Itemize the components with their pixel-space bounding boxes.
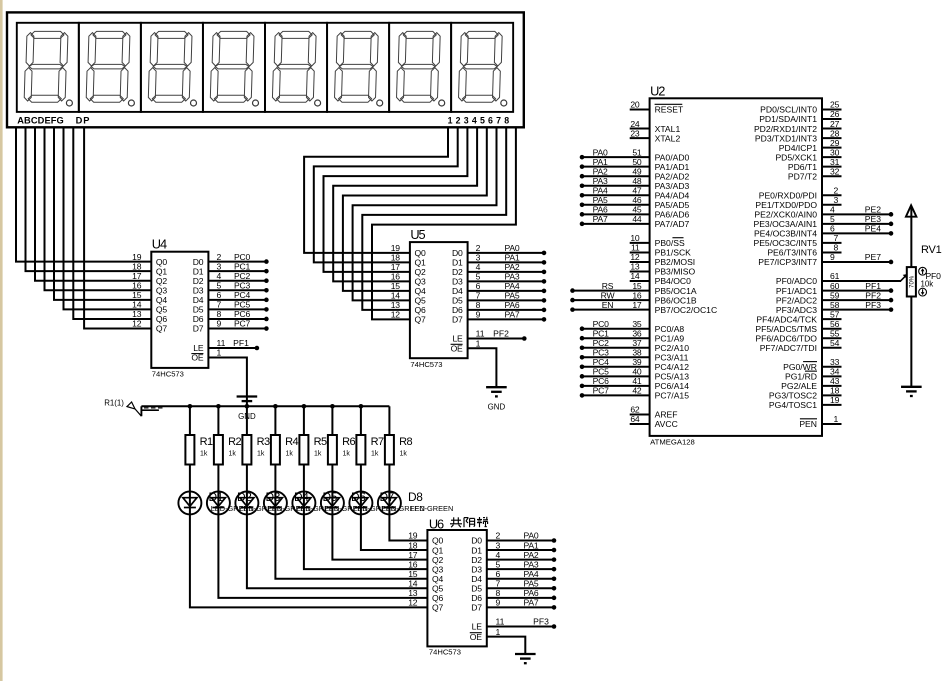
pin 18 stub (PG3/TOSC2) (822, 394, 842, 396)
pin 57 stub (PF4/ADC4/TCK) (822, 318, 842, 320)
svg-text:Q0: Q0 (432, 536, 443, 546)
svg-text:D3: D3 (193, 285, 204, 295)
svg-text:D2: D2 (193, 276, 204, 286)
svg-text:2: 2 (496, 531, 501, 541)
svg-text:46: 46 (632, 195, 642, 205)
svg-text:PG4/TOSC1: PG4/TOSC1 (769, 400, 817, 410)
svg-text:PB3/MISO: PB3/MISO (655, 267, 696, 277)
svg-text:PD0/SCL/INT0: PD0/SCL/INT0 (760, 105, 817, 115)
wire U2 PB5/OC1A, node RS (570, 281, 649, 293)
svg-text:PA6/AD6: PA6/AD6 (655, 210, 690, 220)
wire display digit pin 3 to U5 Q2 (324, 127, 468, 272)
svg-text:R1: R1 (200, 436, 213, 448)
svg-text:12: 12 (132, 319, 142, 329)
svg-text:PD7/T2: PD7/T2 (788, 171, 817, 181)
svg-text:PA2: PA2 (504, 262, 519, 272)
svg-text:1k: 1k (371, 451, 379, 458)
svg-text:4: 4 (830, 205, 835, 215)
svg-text:D4: D4 (193, 295, 204, 305)
resistor R4 1k (271, 406, 299, 491)
svg-text:57: 57 (830, 309, 840, 319)
svg-text:45: 45 (632, 205, 642, 215)
wire U6 LE, node PF3 (487, 617, 557, 629)
svg-text:11: 11 (217, 338, 226, 348)
svg-text:15: 15 (632, 281, 642, 291)
wire display segment A to U4 Q0 (16, 127, 151, 261)
pin 26 stub (PD1/SDA/INT1) (822, 118, 842, 120)
svg-text:PD3/TXD1/INT3: PD3/TXD1/INT3 (755, 133, 817, 143)
svg-text:PF1/ADC1: PF1/ADC1 (776, 286, 817, 296)
svg-text:D1: D1 (471, 545, 482, 555)
svg-text:PA2: PA2 (593, 166, 608, 176)
svg-text:PC0: PC0 (593, 319, 610, 329)
pin 2 stub (PE0/RXD0/PDI) (822, 194, 842, 196)
svg-text:R3: R3 (257, 436, 270, 448)
page left margin strip (0, 0, 3, 681)
svg-text:PA0: PA0 (523, 531, 538, 541)
svg-text:LE: LE (472, 622, 483, 632)
svg-text:8: 8 (217, 309, 222, 319)
svg-text:Q5: Q5 (415, 296, 426, 306)
svg-text:PC5: PC5 (234, 300, 251, 310)
svg-text:Q0: Q0 (156, 257, 167, 267)
svg-text:PC7/A15: PC7/A15 (655, 391, 690, 401)
wire display digit pin 1 to U5 Q0 (304, 127, 448, 253)
svg-text:PG3/TOSC2: PG3/TOSC2 (769, 391, 817, 401)
svg-text:PA4: PA4 (504, 281, 519, 291)
svg-text:33: 33 (830, 357, 840, 367)
svg-text:14: 14 (408, 579, 418, 589)
wire LED D4 cathode to U6 Q4 (275, 514, 427, 578)
wire U2 PC1/A9, node PC1 (580, 328, 650, 340)
svg-text:D0: D0 (452, 248, 463, 258)
svg-text:17: 17 (632, 300, 642, 310)
svg-text:35: 35 (632, 319, 642, 329)
wire U5 OE to ground (468, 338, 497, 387)
svg-text:D5: D5 (193, 305, 204, 315)
svg-text:AVCC: AVCC (655, 419, 678, 429)
latch U4 74HC573 (132, 236, 208, 378)
svg-text:ABCDEFG: ABCDEFG (17, 115, 64, 125)
svg-text:PC1: PC1 (593, 328, 610, 338)
svg-text:42: 42 (632, 386, 642, 396)
svg-text:U6: U6 (429, 517, 444, 532)
svg-text:18: 18 (408, 540, 418, 550)
svg-text:R1(1): R1(1) (104, 399, 124, 408)
svg-text:OE: OE (191, 353, 203, 363)
wire U5 LE, node PF2 (468, 329, 527, 341)
wire U6 D6, node PA6 (487, 588, 557, 600)
wire U2 PA4/AD4, node PA4 (580, 185, 650, 197)
svg-text:11: 11 (631, 243, 640, 253)
svg-text:LED-GREEN: LED-GREEN (410, 504, 453, 513)
svg-text:PG0/WR: PG0/WR (783, 362, 817, 372)
svg-text:19: 19 (132, 252, 142, 262)
svg-text:PC5/A13: PC5/A13 (655, 372, 690, 382)
svg-text:U2: U2 (650, 84, 665, 99)
wire U5 D3, node PA3 (468, 272, 547, 284)
svg-text:Q1: Q1 (156, 266, 167, 276)
svg-text:11: 11 (496, 617, 505, 627)
svg-text:48: 48 (632, 176, 642, 186)
wire LED D7 cathode to U6 Q1 (361, 514, 428, 550)
wire U5 D7, node PA7 (468, 310, 547, 322)
svg-text:D6: D6 (452, 305, 463, 315)
svg-text:D4: D4 (452, 286, 463, 296)
svg-text:U5: U5 (410, 227, 425, 242)
svg-text:44: 44 (632, 214, 642, 224)
svg-text:PE6/T3/INT6: PE6/T3/INT6 (767, 248, 817, 258)
svg-text:OE: OE (470, 632, 482, 642)
svg-text:10: 10 (630, 233, 640, 243)
svg-text:38: 38 (632, 347, 642, 357)
LED D2 LED-GREEN (207, 490, 282, 514)
svg-text:10k: 10k (921, 279, 934, 288)
svg-text:9: 9 (496, 598, 501, 608)
svg-text:PC4/A12: PC4/A12 (655, 362, 690, 372)
svg-text:19: 19 (830, 395, 840, 405)
pin 56 stub (PF5/ADC5/TMS) (822, 328, 842, 330)
svg-text:D6: D6 (471, 593, 482, 603)
svg-text:PD2/RXD1/INT2: PD2/RXD1/INT2 (754, 124, 817, 134)
svg-text:Q6: Q6 (156, 314, 167, 324)
LED D4 LED-GREEN (264, 490, 339, 514)
wire LED D2 cathode to U6 Q6 (218, 514, 427, 597)
wire LED D6 cathode to U6 Q2 (332, 514, 427, 559)
svg-text:PA3: PA3 (593, 176, 608, 186)
pin 7 stub (PE5/OC3C/INT5) (822, 242, 842, 244)
svg-text:47: 47 (632, 185, 642, 195)
wire display segment D to U4 Q3 (45, 127, 152, 290)
wire U6 D5, node PA5 (487, 579, 557, 591)
wire U6 D0, node PA0 (487, 531, 557, 543)
svg-text:14: 14 (391, 291, 401, 301)
svg-text:PC6: PC6 (593, 376, 610, 386)
potentiometer RV1 10k (907, 207, 942, 387)
svg-text:PF3/ADC3: PF3/ADC3 (776, 305, 817, 315)
svg-text:Q5: Q5 (432, 584, 443, 594)
svg-text:9: 9 (830, 252, 835, 262)
LED D7 LED-GREEN (349, 490, 424, 514)
svg-text:16: 16 (132, 280, 142, 290)
svg-text:PE3: PE3 (865, 214, 881, 224)
svg-text:D1: D1 (452, 258, 463, 268)
svg-text:PA7/AD7: PA7/AD7 (655, 219, 690, 229)
svg-text:7: 7 (476, 291, 481, 301)
svg-text:5: 5 (217, 280, 222, 290)
svg-text:PC7: PC7 (234, 319, 251, 329)
svg-text:8: 8 (834, 243, 839, 253)
wire U5 D5, node PA5 (468, 291, 547, 303)
svg-text:PC3/A11: PC3/A11 (655, 352, 689, 362)
pin 3 stub (PE1/TXD0/PDO) (822, 204, 842, 206)
svg-text:D0: D0 (471, 536, 482, 546)
resistor R1 1k (185, 406, 213, 491)
svg-text:PA6: PA6 (504, 300, 519, 310)
svg-text:XTAL2: XTAL2 (655, 133, 681, 143)
wire display segment F to U4 Q5 (64, 127, 152, 309)
wire U4 OE to ground (208, 348, 247, 407)
svg-text:25: 25 (830, 100, 840, 110)
svg-text:Q3: Q3 (156, 285, 167, 295)
8-digit 7-segment display module (7, 12, 524, 127)
wire LED D3 cathode to U6 Q5 (247, 514, 428, 588)
svg-text:PA5/AD5: PA5/AD5 (655, 200, 690, 210)
wire U2 PA0/AD0, node PA0 (580, 147, 650, 159)
svg-text:PA7: PA7 (523, 598, 538, 608)
svg-text:Q0: Q0 (415, 248, 426, 258)
svg-text:Q4: Q4 (415, 286, 426, 296)
wire U4 D7, node PC7 (208, 319, 268, 331)
svg-text:3: 3 (476, 253, 481, 263)
wire display segment G to U4 Q6 (73, 127, 151, 319)
svg-text:PE1/TXD0/PDO: PE1/TXD0/PDO (755, 200, 817, 210)
svg-text:Q1: Q1 (415, 258, 426, 268)
svg-text:PB6/OC1B: PB6/OC1B (655, 295, 697, 305)
wire U2 PF0/ADC0 to RV1 wiper, node PF0 (822, 274, 907, 281)
svg-text:PA7: PA7 (504, 310, 519, 320)
wire U4 D6, node PC6 (208, 309, 268, 321)
svg-text:Q2: Q2 (156, 276, 167, 286)
svg-text:PA0: PA0 (593, 147, 608, 157)
svg-text:PA4/AD4: PA4/AD4 (655, 190, 690, 200)
svg-text:PB5/OC1A: PB5/OC1A (655, 286, 697, 296)
wire U6 D2, node PA2 (487, 550, 557, 562)
svg-text:5: 5 (476, 272, 481, 282)
svg-text:13: 13 (132, 309, 142, 319)
svg-text:59: 59 (830, 290, 840, 300)
wire U4 D2, node PC2 (208, 271, 268, 283)
wire U2 PA7/AD7, node PA7 (580, 214, 650, 226)
pin 31 stub (PD6/T1) (822, 166, 842, 168)
svg-text:56: 56 (830, 319, 840, 329)
svg-text:PF6/ADC6/TDO: PF6/ADC6/TDO (755, 333, 817, 343)
svg-text:2: 2 (476, 243, 481, 253)
wire U2 PC5/A13, node PC5 (580, 367, 650, 379)
svg-text:PD4/ICP1: PD4/ICP1 (779, 143, 817, 153)
svg-text:16: 16 (632, 290, 642, 300)
svg-text:2: 2 (834, 185, 839, 195)
svg-text:PE7/ICP3/INT7: PE7/ICP3/INT7 (758, 257, 817, 267)
svg-text:3: 3 (496, 540, 501, 550)
svg-text:PA1: PA1 (523, 540, 538, 550)
svg-text:OE: OE (451, 343, 463, 353)
svg-text:PE2/XCK0/AIN0: PE2/XCK0/AIN0 (754, 210, 817, 220)
svg-text:PC6: PC6 (234, 309, 251, 319)
wire U2 PF2/ADC2, node PF2 (822, 290, 893, 302)
svg-text:5: 5 (830, 214, 835, 224)
wire LED D8 cathode to U6 Q0 (389, 514, 427, 540)
microcontroller U2 ATMEGA128 (630, 84, 839, 447)
svg-text:PE4/OC3B/INT4: PE4/OC3B/INT4 (754, 229, 817, 239)
svg-text:PA4: PA4 (523, 569, 538, 579)
svg-text:19: 19 (391, 243, 401, 253)
svg-text:R6: R6 (342, 436, 355, 448)
svg-text:PF4/ADC4/TCK: PF4/ADC4/TCK (756, 314, 817, 324)
svg-text:31: 31 (830, 157, 840, 167)
wire display digit pin 8 to U5 Q7 (372, 127, 516, 319)
resistor R3 1k (242, 406, 270, 491)
svg-text:PA6: PA6 (523, 588, 538, 598)
pin 8 stub (PE6/T3/INT6) (822, 251, 842, 253)
wire U6 D4, node PA4 (487, 569, 557, 581)
svg-text:PEN: PEN (799, 419, 817, 429)
svg-text:PF1: PF1 (233, 338, 249, 348)
wire U5 D1, node PA1 (468, 253, 547, 265)
svg-text:39: 39 (632, 357, 642, 367)
wire U4 D1, node PC1 (208, 261, 268, 273)
svg-text:18: 18 (830, 386, 840, 396)
svg-text:PB4/OC0: PB4/OC0 (655, 276, 692, 286)
svg-text:3: 3 (217, 261, 222, 271)
svg-text:58: 58 (830, 300, 840, 310)
svg-text:43: 43 (830, 376, 840, 386)
pin 54 stub (PF7/ADC7/TDI) (822, 347, 842, 349)
svg-text:6: 6 (217, 290, 222, 300)
pin 20 stub (RESET) (630, 109, 650, 111)
resistor R8 1k (385, 406, 413, 491)
svg-text:19: 19 (408, 531, 418, 541)
pin 29 stub (PD4/ICP1) (822, 147, 842, 149)
svg-text:U4: U4 (152, 236, 167, 251)
svg-text:74HC573: 74HC573 (429, 648, 461, 657)
resistor R7 1k (356, 406, 384, 491)
svg-text:R4: R4 (285, 436, 298, 448)
pin 62 stub (AREF) (630, 413, 650, 415)
svg-text:51: 51 (632, 147, 642, 157)
wire U2 PA1/AD1, node PA1 (580, 157, 650, 169)
ground symbol at RV1 bottom (901, 387, 922, 396)
svg-text:PC4: PC4 (234, 290, 251, 300)
svg-text:PC2: PC2 (234, 271, 251, 281)
ground symbol GND at U5 OE (486, 387, 507, 411)
svg-text:41: 41 (632, 376, 642, 386)
pin 27 stub (PD2/RXD1/INT2) (822, 128, 842, 130)
svg-text:PG2/ALE: PG2/ALE (781, 381, 817, 391)
svg-text:PA2: PA2 (523, 550, 538, 560)
svg-text:Q6: Q6 (415, 305, 426, 315)
svg-text:1: 1 (496, 627, 501, 637)
svg-text:D7: D7 (193, 324, 204, 334)
svg-text:PE3/OC3A/AIN1: PE3/OC3A/AIN1 (753, 219, 817, 229)
svg-text:PC2/A10: PC2/A10 (655, 343, 690, 353)
ground symbol at U6 OE (515, 654, 536, 663)
svg-text:27: 27 (830, 119, 840, 129)
LED D1 LED-GREEN (178, 490, 253, 514)
pin 24 stub (XTAL1) (630, 128, 650, 130)
svg-text:15: 15 (408, 569, 418, 579)
svg-text:RV1: RV1 (921, 244, 942, 256)
svg-text:13: 13 (630, 262, 640, 272)
pin 55 stub (PF6/ADC6/TDO) (822, 337, 842, 339)
wire U4 D4, node PC4 (208, 290, 268, 302)
svg-text:17: 17 (408, 550, 418, 560)
svg-text:D5: D5 (471, 584, 482, 594)
wire display segment B to U4 Q1 (26, 127, 152, 271)
svg-text:R8: R8 (399, 436, 412, 448)
svg-text:16: 16 (408, 559, 418, 569)
svg-text:D8: D8 (408, 490, 423, 504)
wire U4 D0, node PC0 (208, 252, 268, 264)
svg-text:D3: D3 (452, 277, 463, 287)
LED D3 LED-GREEN (235, 490, 310, 514)
svg-text:PA3: PA3 (504, 272, 519, 282)
svg-text:LE: LE (452, 334, 463, 344)
svg-text:7: 7 (496, 579, 501, 589)
pin 28 stub (PD3/TXD1/INT3) (822, 137, 842, 139)
svg-text:PF0/ADC0: PF0/ADC0 (776, 276, 817, 286)
svg-text:PA5: PA5 (593, 195, 608, 205)
svg-text:ATMEGA128: ATMEGA128 (650, 438, 695, 447)
svg-text:RW: RW (601, 290, 616, 300)
svg-text:5: 5 (496, 559, 501, 569)
wire U2 PC4/A12, node PC4 (580, 357, 650, 369)
svg-text:37: 37 (632, 338, 642, 348)
svg-text:64: 64 (630, 414, 640, 424)
svg-text:1: 1 (476, 338, 481, 348)
svg-text:D7: D7 (452, 315, 463, 325)
svg-text:1: 1 (834, 414, 839, 424)
svg-text:2: 2 (217, 252, 222, 262)
wire U2 PC7/A15, node PC7 (580, 386, 650, 398)
wire LED D5 cathode to U6 Q3 (304, 514, 428, 569)
svg-text:6: 6 (476, 281, 481, 291)
wire display digit pin 4 to U5 Q3 (333, 127, 477, 281)
svg-text:D0: D0 (193, 257, 204, 267)
svg-text:PA3: PA3 (523, 559, 538, 569)
svg-text:1k: 1k (286, 451, 294, 458)
svg-text:29: 29 (830, 138, 840, 148)
svg-text:PC5: PC5 (593, 367, 610, 377)
svg-text:7: 7 (834, 233, 839, 243)
pin 10 stub (PB0/SS) (630, 242, 650, 244)
svg-text:Q2: Q2 (415, 267, 426, 277)
wire U5 D0, node PA0 (468, 243, 547, 255)
pin 33 stub (PG0/WR) (822, 366, 842, 368)
svg-text:DP: DP (76, 115, 91, 125)
wire U4 LE, node PF1 (208, 338, 259, 350)
wire display digit pin 5 to U5 Q4 (343, 127, 487, 291)
svg-text:PA5: PA5 (523, 579, 538, 589)
wire display digit pin 2 to U5 Q1 (314, 127, 458, 262)
svg-text:RS: RS (602, 281, 614, 291)
svg-text:8: 8 (496, 588, 501, 598)
svg-text:PB7/OC2/OC1C: PB7/OC2/OC1C (655, 305, 718, 315)
svg-text:1k: 1k (200, 451, 208, 458)
wire U5 D6, node PA6 (468, 300, 547, 312)
svg-text:XTAL1: XTAL1 (655, 124, 681, 134)
svg-text:9: 9 (476, 310, 481, 320)
svg-text:PF2/ADC2: PF2/ADC2 (776, 295, 817, 305)
wire U5 D4, node PA4 (468, 281, 547, 293)
svg-text:PB1/SCK: PB1/SCK (655, 248, 692, 258)
svg-text:55: 55 (830, 328, 840, 338)
wire U6 D1, node PA1 (487, 540, 557, 552)
power symbol at RV1 top (906, 205, 917, 216)
LED D6 LED-GREEN (321, 490, 396, 514)
svg-text:D4: D4 (471, 574, 482, 584)
wire U5 D2, node PA2 (468, 262, 547, 274)
svg-text:1k: 1k (229, 451, 237, 458)
svg-text:34: 34 (830, 367, 840, 377)
pin 43 stub (PG2/ALE) (822, 385, 842, 387)
pin 32 stub (PD7/T2) (822, 175, 842, 177)
LED D5 LED-GREEN (292, 490, 367, 514)
ground symbol GND at U4 OE (237, 397, 258, 421)
pin 23 stub (XTAL2) (630, 137, 650, 139)
svg-text:50: 50 (632, 157, 642, 167)
svg-text:8: 8 (476, 300, 481, 310)
